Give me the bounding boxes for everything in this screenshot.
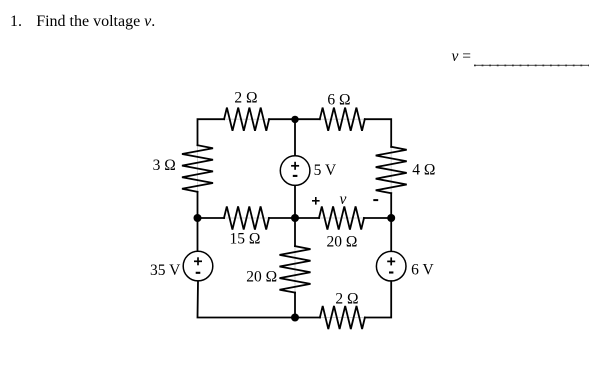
node: center junction dot [291,214,299,222]
svg-text:v: v [340,191,347,208]
wire: bottom-left corner (35V bottom to bottom-center node) [198,281,296,317]
wire: faint guide lines under resistors [198,119,392,317]
wire: top-left corner (3-ohm top to 2-ohm left) [198,119,225,145]
wire: top rail, 2-ohm to top-center node [269,118,295,120]
resistor R2 6 ohm (top right) [320,108,365,131]
wire: left rail, 3-ohm bottom to left-middle node [197,192,199,218]
wire: middle rail, left node to 15-ohm [198,217,225,219]
wire: top-right corner (6-ohm right to 4-ohm top) [365,119,391,147]
label: minus sign of v polarity [373,199,378,201]
svg-text:6 Ω: 6 Ω [327,92,350,109]
resistor R6 20 ohm (middle right, voltage v across) [319,206,364,229]
title: problem statement [10,13,155,30]
node: right-middle junction dot [387,214,395,222]
node: bottom-center junction dot [291,314,299,322]
resistor R5 15 ohm (middle left) [224,206,269,229]
wire: center branch, center node to 20-ohm vertical top [294,218,296,246]
label: plus sign of v polarity [312,197,320,205]
svg-text:2 Ω: 2 Ω [335,291,358,308]
svg-text:v =: v = [452,48,472,65]
resistor R4 4 ohm (right) [376,147,407,193]
svg-text:15 Ω: 15 Ω [229,231,260,248]
wire: middle rail, center node to 20-ohm [295,217,319,219]
source U1 5V (circle with plus/minus) [280,156,310,186]
wire: center branch, top-center node to 5V top [294,119,296,155]
svg-text:20 Ω: 20 Ω [246,269,277,286]
wire: center branch, 20-ohm vertical bottom to bottom-center node [294,293,296,318]
svg-text:3 Ω: 3 Ω [153,157,176,174]
resistor R3 3 ohm (left) [182,145,213,192]
wire: top rail, top-center node to 6-ohm [295,118,320,120]
source U2 35V (circle with plus/minus) [183,251,213,281]
resistor R1 2 ohm (top left) [224,108,269,131]
svg-text:4 Ω: 4 Ω [412,162,435,179]
wire: bottom-right corner (2-ohm to 6V bottom) [365,281,391,317]
wire: middle rail, 15-ohm to center node [269,217,295,219]
node: left-middle junction dot [194,214,202,222]
svg-text:2 Ω: 2 Ω [234,89,257,106]
svg-text:6 V: 6 V [411,262,434,279]
svg-text:5 V: 5 V [314,162,337,179]
wire: center branch, 5V bottom to center node [294,186,296,218]
wire: bottom rail, bottom-center node to 2-ohm [295,317,320,319]
svg-text:1.: 1. [10,13,22,30]
resistor R8 2 ohm (bottom) [320,306,365,329]
source U3 6V (circle with plus/minus) [376,251,406,281]
node: top-center junction dot [291,116,298,123]
resistor R7 20 ohm (center vertical) [280,246,311,293]
svg-text:Find the voltage v.: Find the voltage v. [36,13,155,30]
wire: middle rail, 20-ohm to right-middle node [364,217,391,219]
svg-text:35 V: 35 V [150,262,181,279]
wire: right rail, right-middle node to 6V top [390,218,392,251]
svg-text:20 Ω: 20 Ω [326,234,357,251]
wire: left rail, left-middle node to 35V top [197,218,199,251]
wire: right rail, 4-ohm bottom to right-middle node [390,193,392,218]
